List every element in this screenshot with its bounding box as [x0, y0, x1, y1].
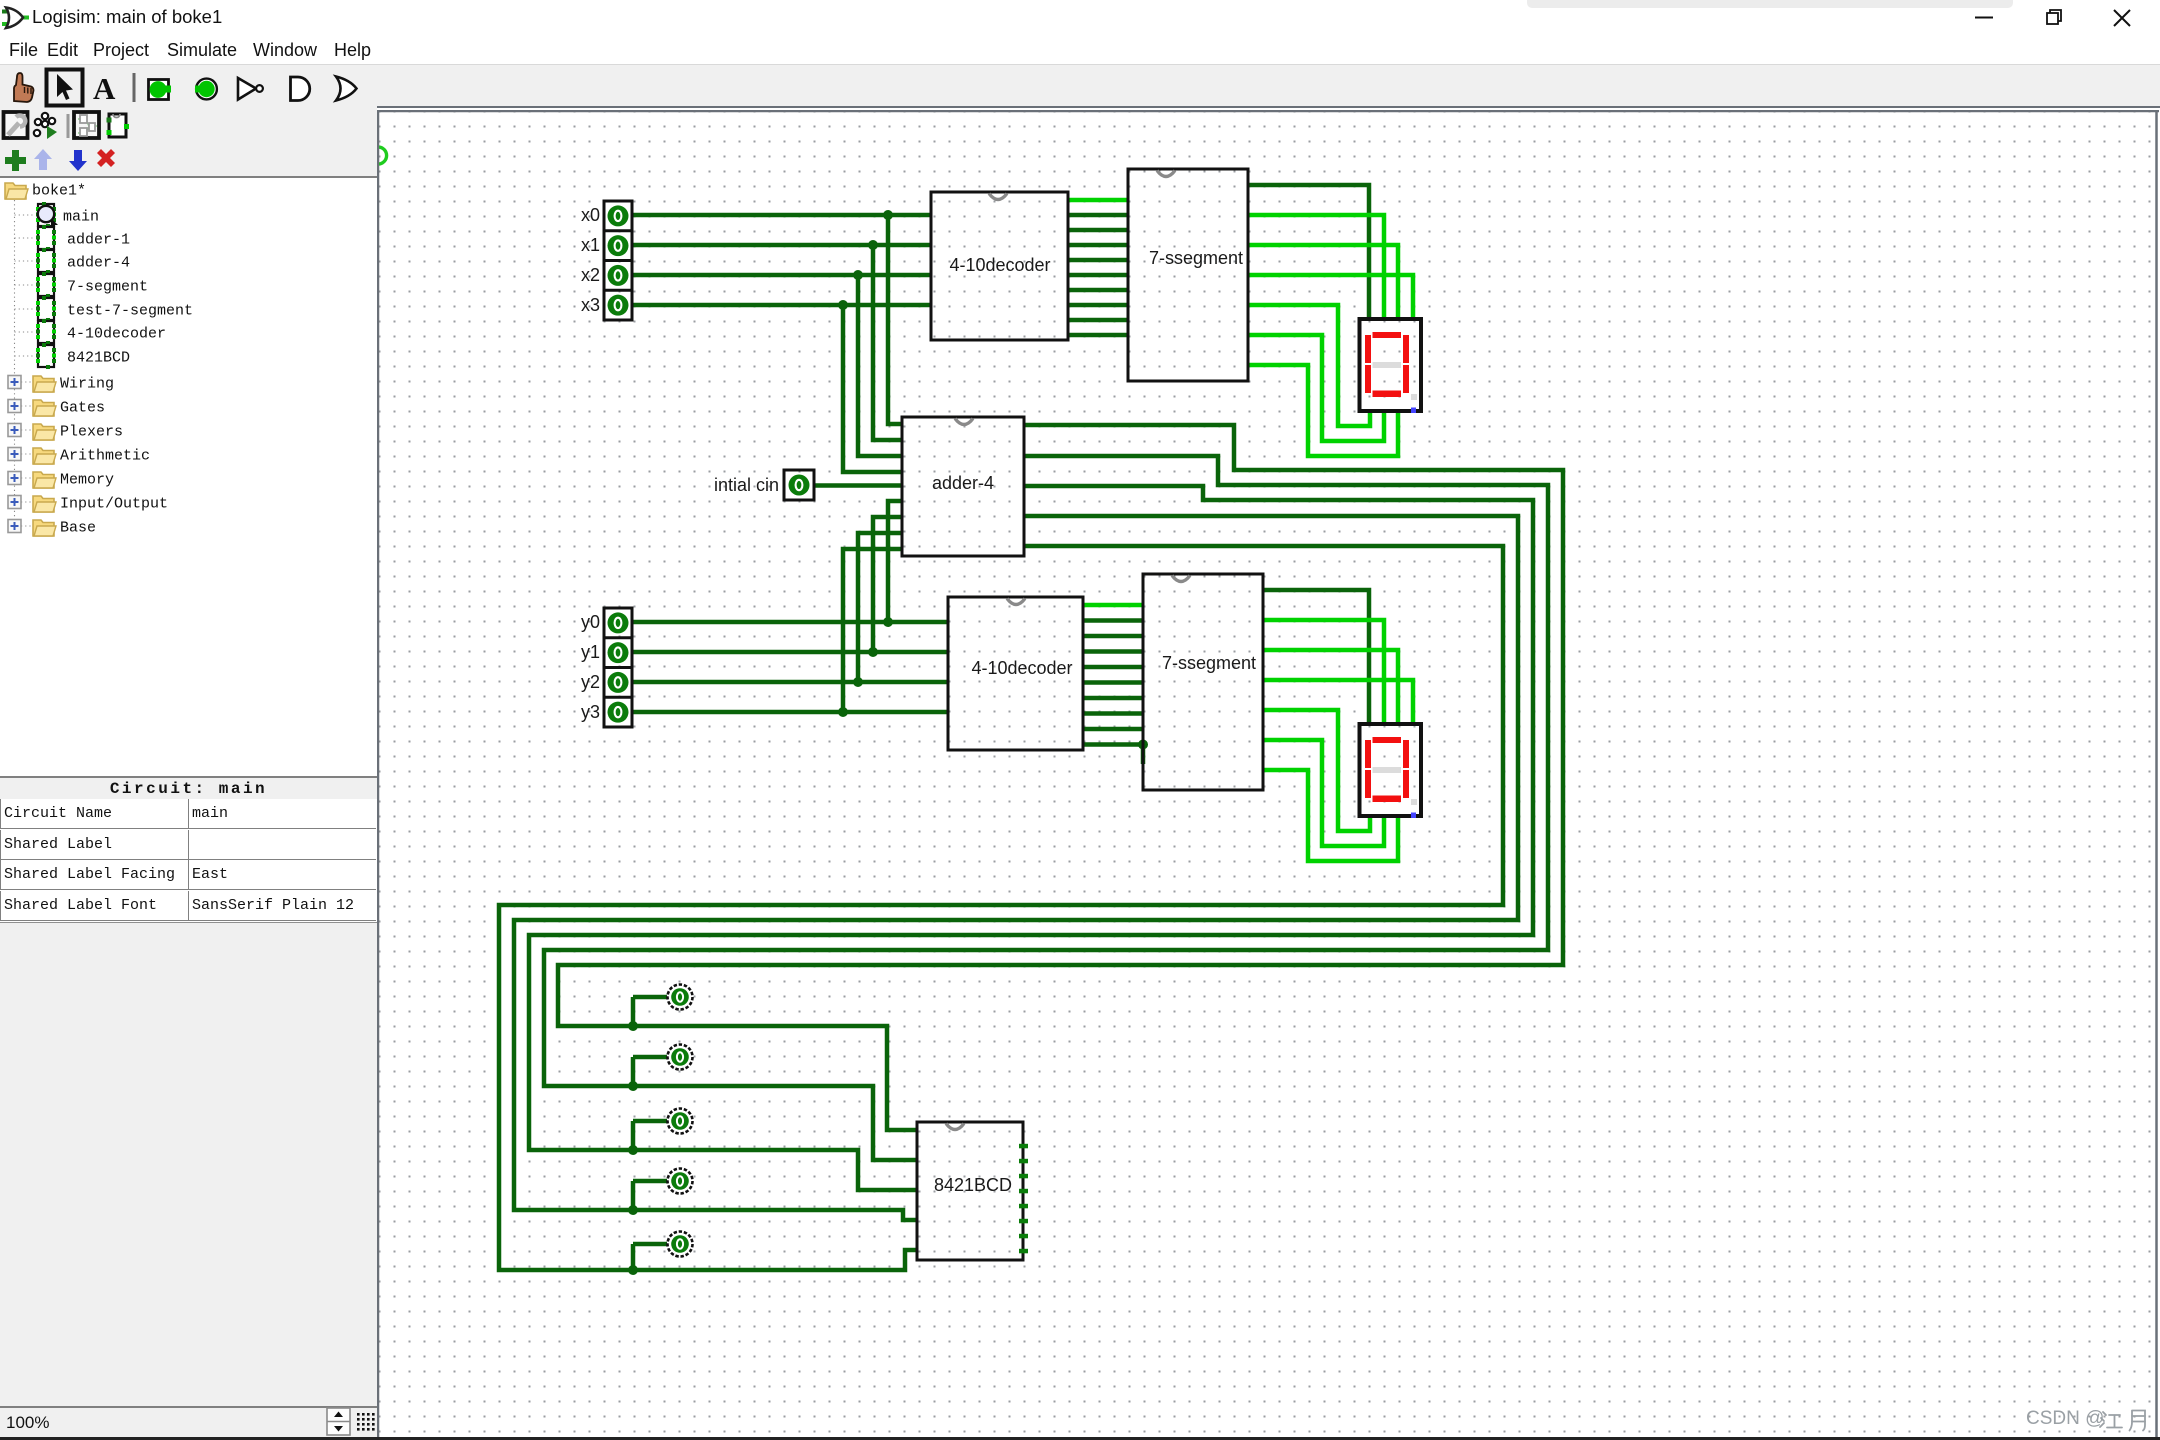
- svg-text:adder-4: adder-4: [932, 473, 994, 493]
- svg-text:x3: x3: [581, 295, 600, 315]
- svg-text:A: A: [93, 71, 116, 106]
- svg-text:100%: 100%: [6, 1413, 49, 1432]
- svg-text:x2: x2: [581, 265, 600, 285]
- svg-text:y2: y2: [581, 672, 600, 692]
- svg-text:adder-1: adder-1: [67, 232, 130, 249]
- svg-text:Gates: Gates: [60, 400, 105, 417]
- svg-text:7-segment: 7-segment: [67, 279, 148, 296]
- svg-text:4-10decoder: 4-10decoder: [67, 326, 166, 343]
- svg-text:8421BCD: 8421BCD: [67, 350, 130, 367]
- svg-text:7-ssegment: 7-ssegment: [1149, 248, 1243, 268]
- svg-text:Memory: Memory: [60, 472, 114, 489]
- svg-text:y0: y0: [581, 612, 600, 632]
- svg-text:4-10decoder: 4-10decoder: [949, 255, 1050, 275]
- svg-text:y3: y3: [581, 702, 600, 722]
- svg-text:boke1*: boke1*: [32, 183, 86, 200]
- svg-text:intial cin: intial cin: [714, 475, 779, 495]
- svg-text:Base: Base: [60, 520, 96, 537]
- svg-text:main: main: [63, 209, 99, 226]
- svg-text:8421BCD: 8421BCD: [934, 1175, 1012, 1195]
- svg-text:Plexers: Plexers: [60, 424, 123, 441]
- svg-text:x1: x1: [581, 235, 600, 255]
- svg-text:adder-4: adder-4: [67, 255, 130, 272]
- svg-text:Arithmetic: Arithmetic: [60, 448, 150, 465]
- svg-text:test-7-segment: test-7-segment: [67, 303, 193, 320]
- svg-text:y1: y1: [581, 642, 600, 662]
- svg-text:x0: x0: [581, 205, 600, 225]
- svg-text:Wiring: Wiring: [60, 376, 114, 393]
- svg-text:7-ssegment: 7-ssegment: [1162, 653, 1256, 673]
- svg-text:Input/Output: Input/Output: [60, 496, 168, 513]
- svg-text:4-10decoder: 4-10decoder: [971, 658, 1072, 678]
